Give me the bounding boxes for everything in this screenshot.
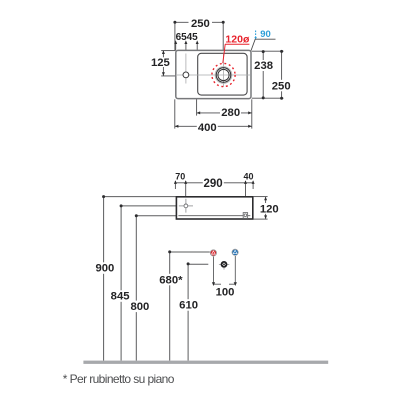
svg-text:250: 250 bbox=[191, 18, 210, 30]
svg-text:125: 125 bbox=[151, 57, 170, 69]
svg-text:800: 800 bbox=[130, 301, 149, 313]
svg-text:45: 45 bbox=[187, 32, 199, 43]
svg-text:40: 40 bbox=[243, 172, 253, 182]
svg-text:120ø: 120ø bbox=[225, 33, 250, 45]
svg-text:680*: 680* bbox=[159, 274, 183, 286]
svg-text:238: 238 bbox=[254, 60, 273, 72]
svg-text:65: 65 bbox=[176, 32, 188, 43]
svg-text:900: 900 bbox=[95, 263, 114, 275]
svg-text:400: 400 bbox=[198, 122, 217, 134]
svg-text:* Per rubinetto su piano: * Per rubinetto su piano bbox=[63, 372, 175, 386]
svg-text:100: 100 bbox=[216, 287, 235, 299]
svg-text:90: 90 bbox=[260, 29, 271, 40]
svg-text:70: 70 bbox=[175, 172, 185, 182]
svg-text:120: 120 bbox=[260, 203, 279, 215]
svg-text:290: 290 bbox=[204, 178, 223, 190]
svg-text:845: 845 bbox=[111, 291, 130, 303]
svg-text:280: 280 bbox=[221, 107, 240, 119]
svg-text:610: 610 bbox=[179, 300, 198, 312]
svg-text:250: 250 bbox=[272, 80, 291, 92]
